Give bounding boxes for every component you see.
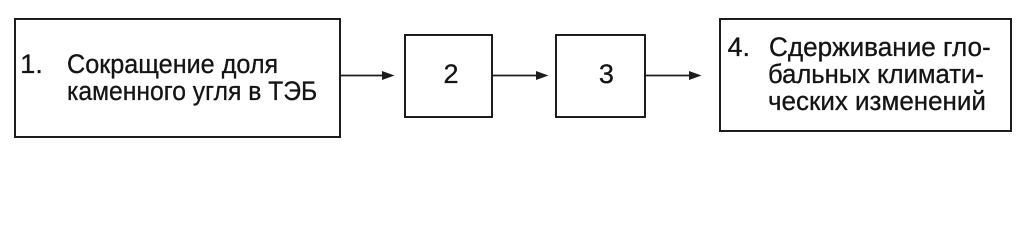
arrow 3 xyxy=(646,71,702,80)
label 4. xyxy=(728,34,751,61)
box 3 xyxy=(555,34,646,118)
arrow 1 xyxy=(341,71,395,80)
label 3 xyxy=(599,61,614,88)
box 4 xyxy=(719,18,1012,132)
box 2 xyxy=(404,34,493,118)
text box 1 line 1 xyxy=(67,51,278,78)
arrow 2 xyxy=(493,71,549,80)
text box 4 line 3 xyxy=(768,88,986,115)
box 1 xyxy=(14,18,341,138)
label 1. xyxy=(20,51,43,78)
text box 4 line 2 xyxy=(768,61,984,88)
label 2 xyxy=(444,61,459,88)
text box 4 line 1 xyxy=(769,34,991,61)
text box 1 line 2 xyxy=(67,78,317,105)
